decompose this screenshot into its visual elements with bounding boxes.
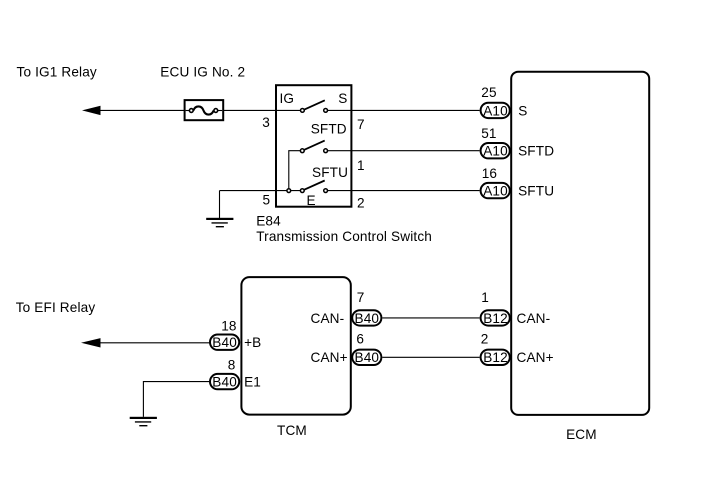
svg-text:SFTU: SFTU xyxy=(312,165,348,180)
svg-text:E: E xyxy=(307,193,316,208)
switch box E84 xyxy=(276,85,351,207)
wire SFTD branch vertical xyxy=(289,151,303,191)
connector B40 pin 7 xyxy=(352,310,381,326)
switch SFTD lever xyxy=(302,141,324,151)
wire IG row from arrow to switch box xyxy=(99,109,302,111)
wire SFTD row to ECM A10 xyxy=(328,150,480,152)
connector B40 pin 8 xyxy=(210,374,239,390)
wire CAN- row xyxy=(382,317,479,319)
switch SFTU right contact xyxy=(324,189,328,193)
connector A10 pin 16 xyxy=(481,183,510,199)
svg-text:8: 8 xyxy=(228,358,236,373)
switch IG-S right contact xyxy=(324,109,328,113)
svg-text:S: S xyxy=(518,103,527,118)
svg-text:51: 51 xyxy=(481,126,496,141)
svg-text:ECM: ECM xyxy=(566,427,597,442)
switch SFTD right contact xyxy=(324,149,328,153)
svg-text:3: 3 xyxy=(262,115,270,130)
svg-text:CAN+: CAN+ xyxy=(311,350,348,365)
svg-text:18: 18 xyxy=(221,319,236,334)
connector B40 pin 6 xyxy=(352,350,381,366)
ground symbol (switch) xyxy=(206,218,233,227)
svg-text:25: 25 xyxy=(481,85,496,100)
svg-text:A10: A10 xyxy=(483,144,508,159)
switch IG-S lever xyxy=(302,100,324,110)
svg-text:B40: B40 xyxy=(212,335,237,350)
svg-text:SFTD: SFTD xyxy=(518,144,554,159)
TCM box xyxy=(241,277,350,415)
svg-text:B12: B12 xyxy=(483,311,508,326)
svg-text:5: 5 xyxy=(263,193,271,208)
ground symbol (TCM) xyxy=(130,417,157,426)
svg-text:S: S xyxy=(338,91,347,106)
svg-text:SFTD: SFTD xyxy=(311,121,347,136)
svg-text:2: 2 xyxy=(357,195,365,210)
svg-text:16: 16 xyxy=(482,166,497,181)
switch IG-S left contact xyxy=(301,109,305,113)
arrow to EFI relay xyxy=(81,338,101,347)
svg-text:1: 1 xyxy=(357,158,365,173)
connector B40 pin 18 xyxy=(210,335,239,351)
junction on SFTU row xyxy=(287,189,291,193)
arrow to IG1 relay xyxy=(82,106,101,115)
connector A10 pin 51 xyxy=(481,143,510,159)
svg-text:CAN-: CAN- xyxy=(517,311,551,326)
svg-text:A10: A10 xyxy=(483,103,508,118)
svg-text:+B: +B xyxy=(244,335,261,350)
wire E1 row to ground xyxy=(143,382,210,417)
connector B12 pin 1 xyxy=(481,310,510,326)
switch SFTD left contact xyxy=(300,149,304,153)
svg-text:B40: B40 xyxy=(355,350,380,365)
wire to ground from SFTU row xyxy=(219,191,221,219)
fuse ECU IG No.2 body xyxy=(185,100,224,120)
svg-text:ECU IG No. 2: ECU IG No. 2 xyxy=(160,65,245,80)
svg-text:B12: B12 xyxy=(483,350,508,365)
connector B12 pin 2 xyxy=(481,350,510,366)
svg-text:E84: E84 xyxy=(256,213,281,228)
svg-text:CAN+: CAN+ xyxy=(517,350,554,365)
wire S row to ECM A10 xyxy=(328,109,480,111)
wire +B row from arrow to TCM xyxy=(99,342,210,344)
svg-text:E1: E1 xyxy=(244,375,261,390)
ECM box xyxy=(511,72,649,415)
svg-text:1: 1 xyxy=(481,290,489,305)
svg-text:CAN-: CAN- xyxy=(311,311,345,326)
svg-text:To EFI Relay: To EFI Relay xyxy=(16,300,96,315)
svg-text:TCM: TCM xyxy=(277,423,307,438)
switch SFTU left contact xyxy=(300,189,304,193)
switch SFTU lever xyxy=(302,181,324,191)
svg-text:IG: IG xyxy=(280,91,295,106)
svg-text:Transmission Control Switch: Transmission Control Switch xyxy=(256,229,432,244)
svg-text:B40: B40 xyxy=(212,375,237,390)
wire SFTU row from ground to switch xyxy=(220,190,303,192)
svg-text:7: 7 xyxy=(357,117,365,132)
svg-text:B40: B40 xyxy=(355,311,380,326)
svg-text:6: 6 xyxy=(356,332,364,347)
svg-text:7: 7 xyxy=(357,290,365,305)
svg-text:SFTU: SFTU xyxy=(518,184,554,199)
svg-text:To IG1 Relay: To IG1 Relay xyxy=(17,65,97,80)
svg-text:A10: A10 xyxy=(483,184,508,199)
connector A10 pin 25 xyxy=(481,103,510,119)
wire SFTU row to ECM A10 xyxy=(328,190,480,192)
wire CAN+ row xyxy=(382,356,479,358)
svg-text:2: 2 xyxy=(481,332,489,347)
